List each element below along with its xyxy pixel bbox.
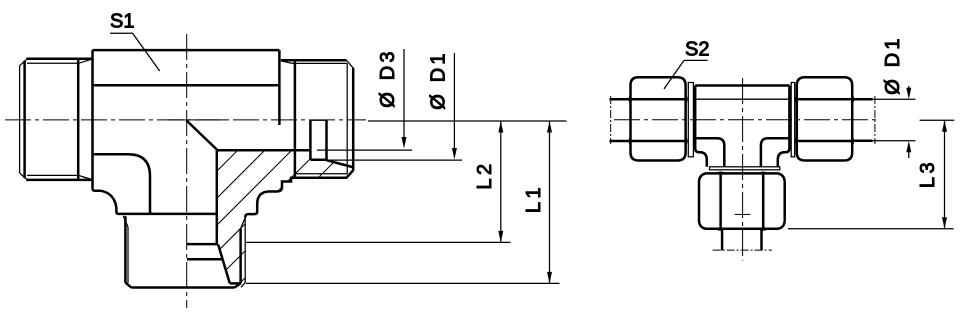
bottom port center cross tick xyxy=(735,213,751,215)
svg-text:L2: L2 xyxy=(474,160,496,189)
body xyxy=(695,86,789,167)
horizontal centerline xyxy=(5,119,366,121)
horizontal centerline xyxy=(614,119,876,121)
bottom flange xyxy=(710,167,780,170)
right washer xyxy=(791,83,795,157)
svg-text:Ø D1: Ø D1 xyxy=(427,50,449,109)
hex body outline xyxy=(93,50,280,214)
right tube stub xyxy=(852,99,872,141)
vertical centerline xyxy=(186,34,188,308)
left stud thin lines (root + chamfers) xyxy=(20,59,92,180)
svg-text:S1: S1 xyxy=(110,11,134,33)
bottom tube end mark xyxy=(713,249,772,251)
hatching xyxy=(34,112,465,300)
section cut diagonal xyxy=(186,120,217,149)
svg-text:L1: L1 xyxy=(523,184,545,213)
bottom tube stub xyxy=(722,229,761,251)
bottom nut xyxy=(699,173,785,228)
bottom port internal steps xyxy=(187,244,241,283)
left nut xyxy=(631,77,686,160)
bottom stud xyxy=(125,216,240,287)
right tube end mark xyxy=(874,96,876,144)
right port counterbore box xyxy=(310,120,352,167)
left tube end mark xyxy=(610,96,612,144)
bottom port bore wall xyxy=(216,150,219,244)
left washer xyxy=(688,83,693,157)
section outline lower right (steps and fillets) xyxy=(245,171,353,218)
left stud outline xyxy=(25,59,93,180)
svg-text:S2: S2 xyxy=(685,39,709,61)
right stud xyxy=(281,60,353,177)
svg-text:Ø D3: Ø D3 xyxy=(377,48,399,107)
vertical centerline xyxy=(742,78,744,261)
bore bottom edge (D3) xyxy=(217,149,311,152)
section boundary segment at axis xyxy=(168,119,226,121)
svg-text:L3: L3 xyxy=(917,159,939,188)
right nut xyxy=(797,77,852,160)
left tube stub xyxy=(609,99,630,141)
svg-text:Ø D1: Ø D1 xyxy=(882,35,904,94)
